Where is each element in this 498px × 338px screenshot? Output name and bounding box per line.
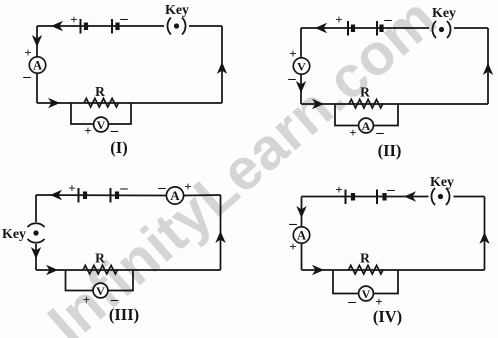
wire top III left of ammeter bbox=[36, 194, 167, 197]
arrow down on left wire III bbox=[31, 247, 41, 259]
wire right IV bbox=[484, 197, 486, 271]
wire V-branch I bbox=[71, 103, 131, 124]
svg-text:–: – bbox=[119, 11, 128, 27]
arrow right on bottom wire IV bbox=[312, 265, 324, 275]
svg-text:+: + bbox=[70, 12, 77, 27]
svg-text:R: R bbox=[360, 251, 370, 266]
battery cell 2 III bbox=[111, 188, 118, 203]
voltmeter V (circuit II) bbox=[293, 58, 309, 74]
battery cell 1 IV bbox=[346, 190, 354, 205]
svg-text:–: – bbox=[383, 12, 392, 28]
battery cell 1 I bbox=[81, 19, 87, 34]
key K4 bbox=[431, 188, 449, 205]
svg-text:R: R bbox=[95, 84, 105, 99]
svg-text:R: R bbox=[360, 85, 370, 100]
wire top III right of ammeter bbox=[184, 194, 221, 197]
wire right II bbox=[487, 28, 489, 104]
svg-text:R: R bbox=[95, 251, 105, 266]
battery cell 1 II bbox=[348, 21, 353, 36]
svg-text:Key: Key bbox=[432, 6, 456, 21]
svg-text:–: – bbox=[22, 69, 31, 85]
ammeter A (circuit I) bbox=[29, 57, 45, 73]
wire left III bbox=[35, 195, 37, 270]
arrow up on right wire IV bbox=[479, 232, 489, 244]
wire right III bbox=[220, 195, 222, 270]
key K3 (in left wire) bbox=[28, 223, 45, 243]
wire top II bbox=[301, 27, 429, 29]
svg-text:–: – bbox=[347, 294, 356, 310]
wire bottom I bbox=[37, 102, 222, 104]
svg-text:A: A bbox=[33, 59, 42, 73]
wire right I bbox=[221, 26, 223, 103]
svg-text:+: + bbox=[349, 125, 356, 140]
svg-text:+: + bbox=[84, 123, 91, 138]
wire top I bbox=[37, 25, 164, 27]
resistor R (circuit II) bbox=[349, 99, 383, 108]
arrow down on left wire IV bbox=[296, 206, 306, 218]
svg-text:+: + bbox=[335, 12, 342, 27]
svg-text:Key: Key bbox=[2, 227, 26, 242]
wire bottom II bbox=[301, 103, 488, 105]
svg-text:Key: Key bbox=[430, 175, 454, 190]
wire top II right of key bbox=[454, 27, 488, 29]
circuit IV wires bbox=[302, 197, 485, 294]
battery cell 2 I bbox=[112, 19, 118, 34]
voltmeter V (circuit IV) bbox=[359, 286, 374, 301]
svg-text:A: A bbox=[297, 229, 306, 243]
svg-text:–: – bbox=[386, 182, 395, 198]
svg-text:+: + bbox=[24, 45, 31, 60]
svg-text:–: – bbox=[287, 71, 296, 87]
wire left IV bbox=[301, 197, 303, 271]
svg-text:+: + bbox=[184, 179, 191, 194]
battery cell 2 II bbox=[377, 21, 382, 36]
svg-text:(IV): (IV) bbox=[373, 307, 402, 326]
wire bottom IV bbox=[302, 269, 485, 271]
svg-text:V: V bbox=[362, 287, 371, 301]
battery cell 2 IV bbox=[377, 190, 385, 205]
svg-text:+: + bbox=[68, 181, 75, 196]
svg-text:+: + bbox=[289, 239, 296, 254]
arrow up on right wire III bbox=[215, 231, 225, 243]
wire V-branch III bbox=[66, 270, 134, 291]
wire top IV bbox=[302, 196, 429, 198]
wire left II bbox=[300, 28, 302, 104]
resistor R (circuit III) bbox=[83, 265, 118, 274]
svg-text:A: A bbox=[170, 188, 180, 203]
svg-text:V: V bbox=[96, 284, 105, 298]
svg-text:–: – bbox=[375, 125, 384, 141]
wire top IV right of key bbox=[454, 196, 485, 198]
arrow right on bottom wire III bbox=[46, 265, 58, 275]
voltmeter V (circuit III) bbox=[93, 283, 108, 298]
resistor R (circuit I) bbox=[84, 98, 119, 107]
resistor R (circuit IV) bbox=[349, 265, 384, 274]
arrow down on left wire I bbox=[32, 35, 42, 47]
svg-text:(III): (III) bbox=[109, 305, 139, 324]
arrow right on bottom wire I bbox=[48, 98, 60, 108]
arrow up on right wire II bbox=[483, 63, 493, 75]
arrow right on bottom wire II bbox=[312, 99, 324, 109]
svg-text:+: + bbox=[335, 182, 342, 197]
arrow up on right wire I bbox=[217, 62, 227, 74]
arrow left on top wire I bbox=[51, 21, 63, 31]
wire bottom III bbox=[36, 269, 221, 271]
svg-text:–: – bbox=[119, 181, 128, 197]
svg-text:+: + bbox=[289, 46, 296, 61]
arrow left on top wire III bbox=[50, 190, 62, 200]
wire V-branch IV bbox=[333, 270, 398, 294]
svg-text:(II): (II) bbox=[378, 141, 402, 160]
battery cell 1 III bbox=[79, 188, 86, 203]
voltmeter V (circuit I) bbox=[94, 117, 109, 132]
svg-text:V: V bbox=[97, 118, 106, 132]
key K1 bbox=[167, 18, 185, 35]
ammeter A (circuit II) bbox=[359, 118, 374, 133]
wire left I bbox=[36, 26, 38, 103]
svg-text:–: – bbox=[157, 180, 166, 196]
svg-text:Key: Key bbox=[165, 3, 189, 18]
svg-text:(I): (I) bbox=[110, 138, 127, 157]
ammeter A (circuit III, in top wire) bbox=[166, 187, 183, 204]
circuit I wires bbox=[37, 26, 222, 124]
key K2 bbox=[432, 21, 450, 38]
circuit II wires bbox=[301, 28, 488, 126]
svg-text:A: A bbox=[362, 119, 371, 133]
wire top I right of key bbox=[189, 25, 222, 27]
ammeter A (circuit IV) bbox=[293, 227, 309, 243]
svg-text:+: + bbox=[83, 292, 90, 307]
arrow left on top wire IV (before key) bbox=[404, 191, 416, 201]
arrow left on top wire II bbox=[315, 23, 327, 33]
wire A-branch II bbox=[335, 104, 398, 126]
circuit III wires bbox=[36, 195, 221, 291]
svg-text:V: V bbox=[297, 60, 306, 74]
arrow down on left wire II bbox=[296, 81, 306, 93]
svg-text:–: – bbox=[288, 216, 297, 232]
svg-text:–: – bbox=[110, 123, 119, 139]
